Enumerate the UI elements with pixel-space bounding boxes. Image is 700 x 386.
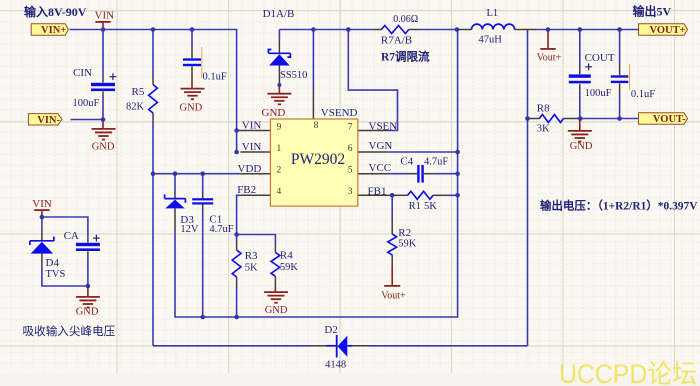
svg-text:0.1uF: 0.1uF — [203, 72, 227, 83]
svg-text:CIN: CIN — [73, 67, 92, 79]
svg-text:R3: R3 — [245, 250, 258, 262]
svg-text:100uF: 100uF — [73, 98, 100, 109]
svg-text:GND: GND — [570, 141, 593, 152]
svg-text:2: 2 — [277, 166, 282, 176]
svg-text:3: 3 — [348, 187, 353, 197]
svg-text:R8: R8 — [537, 102, 550, 114]
svg-text:GND: GND — [92, 142, 115, 153]
svg-text:GND: GND — [76, 307, 99, 318]
svg-text:12V: 12V — [180, 224, 199, 235]
svg-text:R1: R1 — [409, 201, 421, 212]
svg-text:VIN: VIN — [32, 198, 52, 210]
svg-text:4.7uF: 4.7uF — [209, 224, 233, 235]
svg-text:SS510: SS510 — [280, 70, 307, 81]
svg-text:R4: R4 — [280, 250, 293, 262]
svg-text:吸收输入尖峰电压: 吸收输入尖峰电压 — [23, 324, 116, 338]
svg-text:R7A/B: R7A/B — [381, 35, 412, 47]
svg-text:7: 7 — [348, 122, 353, 132]
svg-text:4: 4 — [277, 187, 282, 197]
svg-text:VCC: VCC — [369, 162, 392, 174]
svg-text:4148: 4148 — [325, 360, 346, 371]
svg-text:VOUT+: VOUT+ — [649, 25, 685, 36]
svg-text:输出5V: 输出5V — [633, 4, 672, 19]
svg-text:GND: GND — [180, 103, 203, 114]
svg-text:82K: 82K — [126, 102, 145, 113]
svg-text:Vout+: Vout+ — [381, 290, 406, 301]
svg-text:100uF: 100uF — [585, 88, 612, 99]
svg-text:FB1: FB1 — [368, 185, 387, 197]
svg-text:R5: R5 — [132, 86, 145, 98]
svg-text:0.06Ω: 0.06Ω — [393, 14, 418, 25]
svg-text:VSEND: VSEND — [321, 107, 358, 119]
svg-text:VDD: VDD — [238, 163, 262, 175]
svg-text:FB2: FB2 — [237, 184, 256, 196]
svg-text:6: 6 — [348, 144, 353, 154]
svg-text:UCCPD论坛: UCCPD论坛 — [559, 359, 697, 386]
svg-text:VIN: VIN — [242, 120, 262, 132]
svg-text:GND: GND — [262, 107, 286, 119]
svg-text:C4: C4 — [400, 156, 413, 168]
svg-text:5K: 5K — [424, 201, 437, 212]
svg-text:3K: 3K — [537, 124, 550, 135]
svg-text:1: 1 — [277, 144, 282, 154]
svg-text:CA: CA — [64, 230, 79, 242]
svg-text:9: 9 — [277, 122, 282, 132]
svg-text:R7调限流: R7调限流 — [381, 49, 430, 63]
svg-text:4.7uF: 4.7uF — [424, 157, 448, 168]
svg-text:VOUT-: VOUT- — [653, 114, 686, 125]
svg-text:0.1uF: 0.1uF — [631, 89, 655, 100]
svg-text:5: 5 — [348, 166, 353, 176]
svg-text:VSEN: VSEN — [369, 121, 398, 133]
svg-text:8: 8 — [314, 121, 319, 131]
svg-text:5K: 5K — [245, 263, 258, 274]
svg-text:输入8V-90V: 输入8V-90V — [24, 4, 87, 19]
svg-text:VIN: VIN — [95, 10, 115, 22]
svg-text:COUT: COUT — [585, 52, 615, 64]
svg-text:输出电压：（1+R2/R1）*0.397V: 输出电压：（1+R2/R1）*0.397V — [540, 198, 698, 212]
svg-text:GND: GND — [265, 305, 288, 316]
svg-text:59K: 59K — [398, 239, 417, 250]
svg-text:Vout+: Vout+ — [537, 52, 562, 63]
svg-text:VIN: VIN — [242, 141, 262, 153]
svg-text:VGN: VGN — [369, 140, 393, 152]
svg-text:L1: L1 — [487, 8, 499, 19]
svg-text:TVS: TVS — [46, 269, 66, 280]
svg-text:D4: D4 — [46, 257, 60, 269]
svg-text:59K: 59K — [280, 262, 299, 273]
svg-text:PW2902: PW2902 — [291, 151, 345, 168]
svg-text:47uH: 47uH — [479, 35, 503, 46]
svg-text:R2: R2 — [398, 227, 411, 239]
svg-text:D1A/B: D1A/B — [263, 8, 295, 20]
svg-text:D2: D2 — [324, 324, 337, 336]
svg-text:VIN-: VIN- — [37, 115, 60, 126]
svg-text:VIN+: VIN+ — [41, 25, 66, 36]
